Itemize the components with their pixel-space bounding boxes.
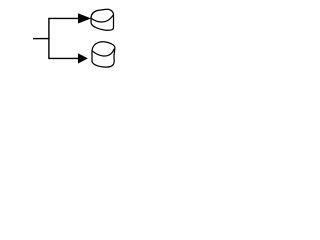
wire: top branch: [48, 17, 79, 19]
arrowhead top: [78, 14, 90, 24]
wire: bottom branch: [48, 57, 79, 59]
arrowhead bottom: [78, 54, 87, 64]
wire: vertical trunk: [48, 18, 50, 58]
wire: input stub: [33, 38, 49, 40]
cylinder top (database): [91, 9, 114, 30]
cylinder bottom (database): [92, 42, 115, 67]
